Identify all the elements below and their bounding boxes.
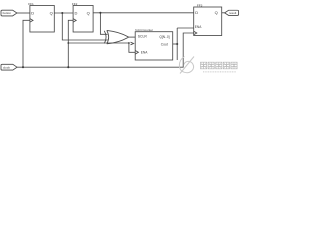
flip-flop FF1 box: [30, 6, 54, 33]
output tag result: [225, 10, 239, 15]
junction dot clk/FF1 riser: [22, 66, 24, 68]
svg-text:clock: clock: [3, 65, 10, 69]
svg-text:Q[N..0]: Q[N..0]: [159, 35, 169, 39]
pin marker triangle on clk branch: [131, 42, 134, 45]
wire node B riser FF2.Q to XOR input A: [100, 13, 107, 35]
svg-text:button: button: [3, 11, 12, 15]
wire FF3 Q to result tag: [222, 12, 225, 14]
wire FF2 clock to clk riser: [68, 20, 73, 67]
wire clk bus to FF3 clock: [17, 33, 194, 67]
svg-text:D: D: [195, 10, 198, 15]
wire node A riser FF1.Q to XOR input B: [62, 13, 108, 40]
wire counter Cout to node C: [173, 43, 178, 45]
wire node C vertical Cout net: [176, 28, 178, 60]
junction dot clk/FF2 riser: [67, 66, 69, 68]
wire FF1 Q to FF2 D: [54, 12, 73, 14]
counter clock triangle: [135, 51, 138, 55]
wire FF1 clock to clk riser: [23, 20, 30, 67]
svg-text:FF2: FF2: [72, 2, 78, 6]
wire clk branch to counter clock: [68, 43, 135, 52]
svg-text:FF1: FF1: [28, 2, 34, 6]
watermark text blocks: [201, 62, 238, 69]
junction dot Cout node C: [176, 43, 178, 45]
flip-flop FF3 box: [194, 7, 222, 36]
junction dot FF2.Q: [99, 12, 101, 14]
FF2 clock triangle: [73, 19, 76, 23]
svg-text:FF3: FF3: [197, 3, 203, 7]
junction dot counter clock corner: [128, 42, 130, 44]
svg-text:ENA: ENA: [141, 51, 148, 55]
svg-text:result: result: [229, 11, 237, 15]
input tag clock: [1, 64, 17, 70]
wire button to FF1 D: [17, 12, 30, 14]
svg-text:Cout: Cout: [161, 42, 168, 46]
watermark logo: [179, 57, 194, 74]
XOR gate U1: [104, 31, 106, 44]
svg-text:SCLR: SCLR: [138, 34, 148, 38]
wire Cout net to FF3 ENA: [177, 27, 194, 29]
svg-text:D: D: [31, 10, 34, 15]
FF3 clock triangle: [194, 31, 197, 35]
junction dot FF1.Q: [61, 12, 63, 14]
svg-text:Q: Q: [215, 10, 218, 15]
wire XOR output to counter SCLR: [129, 36, 136, 38]
counter U2 box: [135, 32, 173, 60]
input tag button: [1, 10, 17, 16]
watermark url line: [203, 71, 236, 73]
svg-text:Q: Q: [87, 10, 90, 15]
junction dot clk branch: [67, 42, 69, 44]
svg-text:Q: Q: [50, 10, 53, 15]
svg-text:ENA: ENA: [195, 25, 202, 29]
svg-text:D: D: [75, 10, 78, 15]
FF1 clock triangle: [30, 19, 33, 23]
wire FF2 Q to FF3 D: [93, 12, 194, 14]
flip-flop FF2 box: [73, 6, 93, 33]
svg-text:N-bit Counter: N-bit Counter: [135, 28, 153, 32]
